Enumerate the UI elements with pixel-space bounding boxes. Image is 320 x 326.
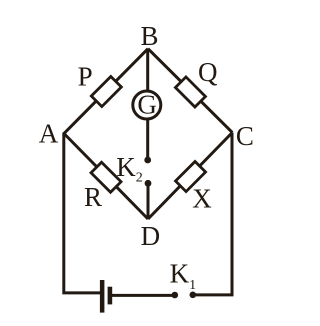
resistor X (176, 162, 206, 192)
svg-text:D: D (141, 221, 161, 251)
wire K2 lower dot to D (147, 183, 150, 219)
wire A-D (64, 134, 148, 220)
wire D-C (148, 133, 232, 220)
svg-text:K1: K1 (170, 259, 197, 294)
wire B to galvanometer branch (146, 49, 149, 160)
svg-text:B: B (141, 21, 159, 51)
resistor R (91, 162, 121, 192)
wire B-C (148, 49, 232, 133)
svg-text:K2: K2 (116, 152, 143, 186)
svg-text:X: X (192, 184, 212, 214)
svg-text:G: G (137, 90, 157, 120)
wire K1 right terminal to corner up to C (193, 133, 232, 295)
node K2 lower terminal dot (145, 180, 152, 187)
node K1 left terminal dot (172, 292, 179, 299)
battery short plate (108, 287, 113, 305)
galvanometer G circle (133, 91, 161, 119)
resistor Q (175, 77, 205, 107)
node K2 upper terminal dot (144, 157, 151, 164)
resistor P (91, 77, 121, 107)
wire A-B (64, 49, 148, 134)
svg-text:R: R (84, 182, 102, 212)
node K1 right terminal dot (190, 292, 197, 299)
svg-text:A: A (39, 119, 59, 149)
svg-text:Q: Q (198, 57, 218, 87)
wire A down-left side to battery (64, 133, 101, 293)
wire battery to K1 left terminal (112, 294, 175, 297)
battery long plate (100, 280, 105, 313)
svg-text:C: C (236, 121, 254, 151)
svg-text:P: P (78, 61, 93, 91)
